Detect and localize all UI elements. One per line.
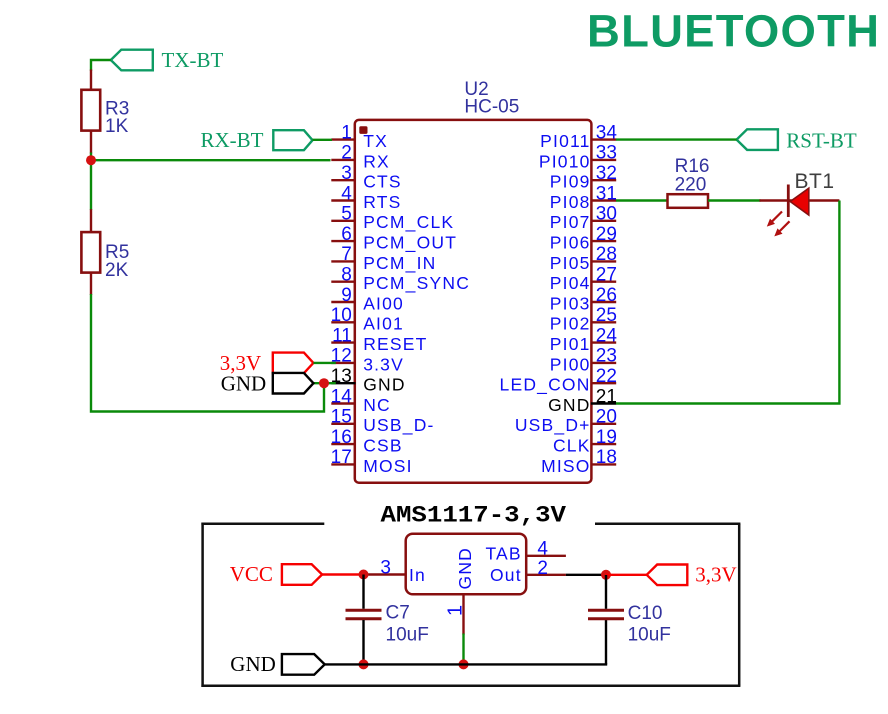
svg-text:2: 2 — [341, 143, 352, 164]
svg-text:220: 220 — [675, 175, 707, 196]
svg-text:22: 22 — [596, 366, 617, 387]
svg-text:GND: GND — [363, 375, 406, 395]
svg-text:21: 21 — [596, 386, 617, 407]
svg-text:BLUETOOTH: BLUETOOTH — [587, 6, 879, 57]
svg-text:CTS: CTS — [363, 172, 402, 192]
svg-text:32: 32 — [596, 163, 617, 184]
svg-text:PCM_CLK: PCM_CLK — [363, 212, 454, 233]
svg-text:AMS1117-3,3V: AMS1117-3,3V — [381, 502, 567, 528]
svg-text:MOSI: MOSI — [363, 456, 413, 476]
svg-text:3: 3 — [380, 558, 391, 579]
svg-text:3,3V: 3,3V — [695, 563, 736, 587]
svg-text:MISO: MISO — [541, 456, 591, 476]
svg-text:NC: NC — [363, 395, 391, 415]
svg-text:PI02: PI02 — [550, 314, 591, 334]
svg-text:TX: TX — [363, 131, 388, 151]
svg-text:4: 4 — [537, 539, 548, 560]
svg-text:PCM_SYNC: PCM_SYNC — [363, 273, 470, 294]
svg-text:RX-BT: RX-BT — [201, 128, 264, 152]
svg-text:PI00: PI00 — [550, 354, 591, 374]
svg-text:17: 17 — [331, 447, 352, 468]
svg-text:3: 3 — [341, 163, 352, 184]
svg-text:4: 4 — [341, 183, 352, 204]
svg-text:23: 23 — [596, 346, 617, 367]
svg-text:RTS: RTS — [363, 192, 401, 212]
svg-text:1K: 1K — [105, 116, 129, 137]
svg-text:27: 27 — [596, 265, 617, 286]
svg-text:31: 31 — [596, 183, 617, 204]
svg-text:10uF: 10uF — [386, 625, 429, 646]
svg-text:RESET: RESET — [363, 334, 427, 354]
svg-text:9: 9 — [341, 285, 352, 306]
svg-text:RX: RX — [363, 151, 390, 171]
svg-text:3.3V: 3.3V — [363, 354, 404, 374]
svg-text:14: 14 — [331, 386, 353, 407]
svg-text:USB_D+: USB_D+ — [515, 415, 591, 436]
svg-text:PI06: PI06 — [550, 233, 591, 253]
svg-text:CSB: CSB — [363, 436, 403, 456]
svg-text:6: 6 — [341, 224, 352, 245]
svg-text:11: 11 — [332, 325, 352, 346]
svg-text:AI01: AI01 — [363, 314, 404, 334]
svg-text:PI01: PI01 — [550, 334, 591, 354]
svg-text:GND: GND — [221, 371, 267, 395]
svg-text:HC-05: HC-05 — [464, 97, 519, 118]
svg-text:RST-BT: RST-BT — [786, 128, 857, 152]
svg-text:PI09: PI09 — [550, 172, 591, 192]
svg-text:10: 10 — [331, 305, 352, 326]
svg-text:LED_CON: LED_CON — [500, 375, 591, 396]
svg-text:PI010: PI010 — [539, 151, 591, 171]
svg-text:28: 28 — [596, 244, 617, 265]
svg-text:33: 33 — [596, 143, 617, 164]
svg-text:PI04: PI04 — [550, 273, 591, 293]
svg-text:CLK: CLK — [553, 436, 591, 456]
svg-text:34: 34 — [596, 122, 618, 143]
svg-text:USB_D-: USB_D- — [363, 415, 434, 436]
svg-text:2: 2 — [537, 558, 548, 579]
svg-text:29: 29 — [596, 224, 617, 245]
svg-text:2K: 2K — [105, 260, 129, 281]
svg-text:PI07: PI07 — [550, 212, 591, 232]
svg-text:PI05: PI05 — [550, 253, 591, 273]
svg-text:30: 30 — [596, 204, 617, 225]
svg-text:TAB: TAB — [485, 544, 521, 564]
svg-text:10uF: 10uF — [628, 625, 671, 646]
svg-text:5: 5 — [341, 204, 352, 225]
svg-text:GND: GND — [230, 652, 276, 676]
svg-text:PI011: PI011 — [540, 131, 590, 151]
svg-text:C10: C10 — [628, 603, 663, 624]
svg-text:16: 16 — [331, 427, 352, 448]
svg-text:VCC: VCC — [230, 562, 273, 586]
svg-text:1: 1 — [341, 122, 352, 143]
svg-text:PI08: PI08 — [550, 192, 591, 212]
svg-text:C7: C7 — [386, 603, 410, 624]
svg-text:PCM_OUT: PCM_OUT — [363, 233, 457, 254]
svg-text:PI03: PI03 — [550, 293, 591, 313]
svg-text:TX-BT: TX-BT — [162, 48, 224, 72]
svg-text:BT1: BT1 — [795, 170, 835, 193]
svg-text:7: 7 — [341, 244, 352, 265]
svg-text:20: 20 — [596, 407, 617, 428]
svg-text:25: 25 — [596, 305, 617, 326]
svg-text:18: 18 — [596, 447, 617, 468]
svg-text:Out: Out — [490, 565, 522, 585]
svg-text:PCM_IN: PCM_IN — [363, 253, 436, 274]
svg-text:In: In — [409, 565, 426, 585]
svg-text:26: 26 — [596, 285, 617, 306]
svg-text:15: 15 — [331, 407, 352, 428]
svg-text:AI00: AI00 — [363, 293, 404, 313]
svg-text:8: 8 — [341, 265, 352, 286]
svg-text:GND: GND — [455, 547, 475, 590]
svg-text:19: 19 — [596, 427, 617, 448]
svg-text:24: 24 — [596, 325, 618, 346]
svg-text:1: 1 — [445, 605, 467, 616]
svg-text:GND: GND — [548, 395, 591, 415]
